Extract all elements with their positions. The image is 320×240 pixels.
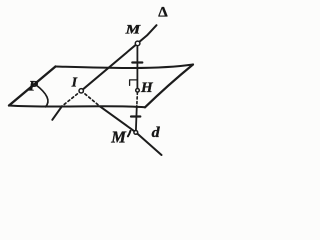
svg-text:I: I [71,76,78,91]
line d solid part through M' [100,106,162,155]
prime mark of M' [128,131,130,136]
svg-text:d: d [152,125,161,141]
point M circle [135,41,140,46]
point H circle [136,89,140,93]
plane P top edge [56,65,194,69]
right angle mark at H [130,80,138,86]
svg-text:M: M [124,23,141,37]
point I circle [79,89,83,93]
segment front edge to M' (solid) [135,106,138,131]
equality tick on MH [132,61,142,63]
point M' circle [134,131,138,135]
svg-text:M: M [110,128,127,147]
line Delta solid part below front edge [52,106,62,120]
svg-text:Δ: Δ [158,5,168,21]
plane P right edge [145,65,193,108]
equality tick on HM' [131,115,140,117]
line d hidden part (dashed) from I under plane [81,91,100,107]
segment M to H (vertical) [136,45,138,88]
svg-text:H: H [140,80,154,96]
line Delta solid part through M down to I [81,25,156,91]
segment H to front edge (dashed hidden) [136,92,139,106]
plane P left edge [9,67,56,106]
svg-text:P: P [29,78,39,94]
angle arc near P label [36,85,48,107]
plane P bottom edge [9,106,145,108]
line Delta hidden part (dashed) below plane surface [62,91,81,106]
